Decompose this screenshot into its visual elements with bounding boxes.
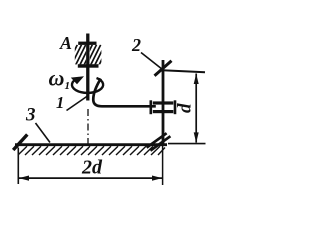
dimension d top arrowhead: [194, 74, 199, 84]
2d left arrowhead: [19, 176, 29, 181]
2d left extension line: [17, 148, 19, 185]
bearing top crossbar: [78, 42, 96, 45]
bearing left hatched block: [67, 45, 95, 67]
bearing right hatched block: [82, 45, 110, 67]
rotation arrow arc: [72, 78, 103, 93]
svg-text:1: 1: [65, 80, 71, 92]
ground left end stroke: [13, 135, 27, 151]
vertical shaft (axis A): [86, 34, 89, 101]
top slider mark on rod 2: [155, 61, 172, 76]
dimension 2d line: [19, 177, 163, 179]
sliding sleeve joint: top bar: [153, 101, 174, 104]
sliding sleeve joint: rod end tick: [150, 100, 153, 114]
dimension d top extension line: [163, 70, 206, 72]
svg-text:1: 1: [56, 93, 64, 112]
rod 2 (vertical): [162, 60, 165, 145]
leader line for label 1: [67, 96, 88, 111]
ground surface 3: top line: [15, 143, 167, 146]
bearing bottom flange: [78, 64, 99, 68]
ground hatching: [18, 146, 165, 155]
2d right arrowhead: [152, 176, 162, 181]
ground right extension line (for d): [168, 143, 206, 145]
rotation arrowhead: [71, 76, 84, 84]
leader line for label 2: [141, 53, 163, 70]
svg-text:d: d: [175, 103, 196, 113]
dimension d bottom arrowhead: [194, 132, 199, 142]
leader line for label 3: [36, 123, 51, 143]
svg-text:ω: ω: [49, 66, 65, 91]
sliding sleeve joint: right tick: [174, 100, 177, 114]
svg-text:3: 3: [25, 105, 36, 126]
dimension d line: [195, 74, 197, 143]
rod 2 lower extension line (to 2d dimension): [162, 144, 164, 185]
svg-text:A: A: [59, 33, 72, 53]
svg-text:2: 2: [131, 35, 141, 55]
svg-text:2d: 2d: [81, 157, 103, 179]
bent rod 1: [93, 79, 156, 107]
axis dash-dot line to ground: [87, 109, 89, 151]
ground right slider marks (two strokes): [147, 133, 167, 147]
sliding sleeve joint: bottom bar: [153, 110, 174, 113]
